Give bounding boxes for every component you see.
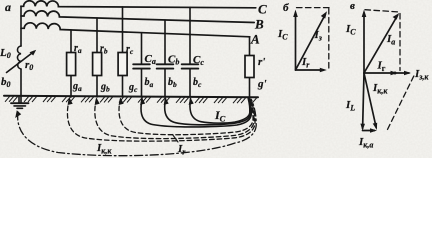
junction dot Iг tip (в) xyxy=(394,72,397,75)
capacitive current arc IC to Cc xyxy=(190,98,250,123)
inductor L0 (arc-suppression coil on neutral) xyxy=(17,46,21,69)
wire: branch rb from phase B xyxy=(96,18,98,97)
vector Iк,к (в) xyxy=(364,73,376,128)
vector IC (в) xyxy=(363,13,365,73)
wire: left neutral bus xyxy=(20,6,22,103)
vector IL (в) xyxy=(363,73,364,129)
arrowheads of return arcs at earth line xyxy=(189,98,194,105)
wire: branch Ca from phase A xyxy=(141,33,143,97)
wire: branch ra from phase A xyxy=(70,30,72,97)
svg-text:в: в xyxy=(350,0,355,12)
dashed construction right (б) xyxy=(328,9,330,71)
dashed construction top (б) xyxy=(297,7,330,9)
vector Iа (в) xyxy=(364,16,398,74)
active current arc (dashed) to ra xyxy=(67,99,255,141)
capacitor Ca xyxy=(133,64,150,68)
svg-text:а: а xyxy=(5,0,11,14)
wire: branch rc from phase C xyxy=(122,7,124,97)
capacitor Cc xyxy=(182,64,199,68)
arrowhead IC (б) xyxy=(293,10,298,17)
resistor rc xyxy=(118,53,127,76)
svg-text:A: A xyxy=(250,32,260,47)
leader line to Ir label xyxy=(173,135,179,143)
arrowhead Iк,к (в) xyxy=(373,123,378,130)
arrowhead Iа (в) xyxy=(393,13,400,20)
svg-text:g': g' xyxy=(257,78,267,90)
capacitor Cb xyxy=(157,64,174,68)
svg-text:B: B xyxy=(254,17,264,32)
dashed construction slant (в) xyxy=(386,76,414,133)
svg-text:б: б xyxy=(283,2,289,14)
resistor r' xyxy=(245,56,254,78)
vector Iг then Iз,к (в) xyxy=(364,72,409,74)
arrowhead Iк,а (в) xyxy=(370,128,377,133)
phase line A with source coil xyxy=(21,23,250,37)
wire: branch Cc from phase C xyxy=(189,7,191,97)
ground electrode (neutral earthing) xyxy=(18,97,20,103)
variable-inductor arrow through L0 xyxy=(7,52,35,73)
dashed construction right (в) xyxy=(399,14,401,71)
earth hatching xyxy=(5,96,257,103)
active current arc (dashed) to rb xyxy=(95,99,254,139)
svg-text:r': r' xyxy=(258,56,265,68)
arrowhead Iз,к (в) xyxy=(404,71,411,76)
earth surface line xyxy=(4,96,258,98)
arrowhead IC (в) xyxy=(362,10,367,17)
arrowhead Ir (б) xyxy=(320,68,327,73)
wire: branch Cb from phase B xyxy=(164,20,166,97)
phase line B with source coil xyxy=(21,11,254,23)
capacitive current arc to Cb xyxy=(165,98,251,124)
vector Iз (б) xyxy=(296,15,326,71)
wire: fault branch r' from phase A xyxy=(249,37,251,97)
vector IC (б) xyxy=(295,13,297,70)
capacitive current arc to Ca xyxy=(141,99,251,127)
arrowhead Iг (в) xyxy=(391,71,398,76)
vector Ir (б) xyxy=(296,69,324,71)
total return arc (dash-dot) to neutral electrode xyxy=(18,99,257,155)
dashed construction top (в) xyxy=(365,10,400,12)
vector Iк,а (в) xyxy=(363,130,375,132)
arrowhead Iз (б) xyxy=(321,11,327,18)
arrowhead of dash-dot arc at electrode xyxy=(15,110,21,118)
svg-text:C: C xyxy=(258,2,267,17)
arrowhead IL (в) xyxy=(360,124,365,131)
phase line C with source coil xyxy=(21,1,256,8)
active current arc (dashed) to rc xyxy=(119,99,253,135)
resistor ra xyxy=(67,53,76,76)
resistor rb xyxy=(93,53,102,76)
